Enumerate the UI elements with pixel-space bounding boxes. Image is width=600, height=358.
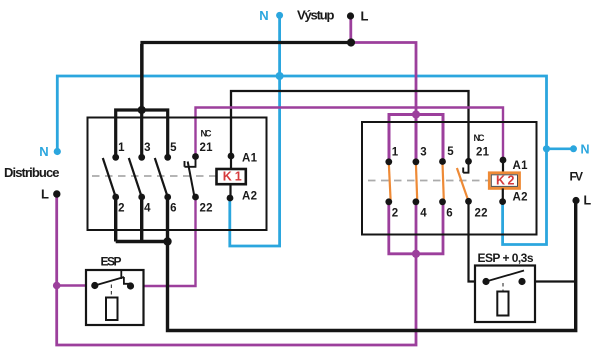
ESP right contact bbox=[127, 282, 134, 289]
svg-text:N: N bbox=[39, 144, 48, 159]
terminal K1-A2 bbox=[227, 195, 234, 202]
terminal K1-21 bbox=[192, 153, 199, 160]
wire L-top to K2 feed (purple) bbox=[351, 43, 416, 115]
terminal K2-6 bbox=[439, 198, 446, 205]
svg-text:6: 6 bbox=[170, 203, 176, 215]
svg-text:2: 2 bbox=[508, 174, 515, 188]
wire ESP junction to ESP left terminal bbox=[57, 284, 95, 286]
terminal K1-2 bbox=[112, 194, 119, 201]
svg-text:4: 4 bbox=[144, 203, 151, 215]
wire L-top stub (purple) bbox=[349, 16, 352, 43]
wire K1 A1 to coil bbox=[230, 156, 232, 169]
wire K2 1-3-5 feed bus (purple) bbox=[389, 115, 443, 162]
node K1 output junction bbox=[163, 237, 171, 245]
ESP contact lead bbox=[124, 277, 131, 284]
terminal K1-6 bbox=[164, 194, 171, 201]
terminal L Distribuce bbox=[53, 190, 60, 197]
terminal K2-1 bbox=[385, 158, 392, 165]
terminal K2-A2 bbox=[499, 198, 506, 205]
terminal K2-3 bbox=[413, 158, 420, 165]
ESP fixed tick bbox=[120, 271, 122, 279]
svg-text:2: 2 bbox=[118, 203, 124, 215]
terminal K1-1 bbox=[112, 154, 119, 161]
node K1 feed junction bbox=[138, 106, 146, 114]
wire K2 2-4-6 purple bus bbox=[389, 202, 443, 254]
terminal K2-21 bbox=[465, 158, 472, 165]
terminal K1-3 bbox=[138, 154, 145, 161]
node FV N junction bbox=[543, 145, 550, 152]
terminal K2-5 bbox=[439, 158, 446, 165]
contact blade K1 3-4 bbox=[129, 158, 142, 197]
NC contact K1 blade bbox=[188, 162, 195, 198]
svg-text:NC: NC bbox=[474, 133, 486, 143]
wire N-top riser down and over to K1 A2 (cyan) bbox=[230, 15, 280, 246]
cyan N bus across top with risers and K2 A2 return bbox=[57, 76, 546, 245]
contact K2 3-4 closed (orange) bbox=[416, 163, 417, 200]
svg-text:5: 5 bbox=[170, 142, 177, 154]
svg-text:ESP: ESP bbox=[101, 255, 122, 269]
svg-text:4: 4 bbox=[420, 208, 427, 220]
wire L-top to K1 feed (black) bbox=[142, 43, 351, 111]
terminal K2-A1 bbox=[500, 157, 507, 164]
contact K2 5-6 closed (orange) bbox=[443, 163, 444, 200]
NC contact K2 fixed stub bbox=[463, 162, 469, 173]
terminal K1-4 bbox=[138, 194, 145, 201]
terminal K1-A1 bbox=[228, 153, 235, 160]
terminal K1-22 bbox=[192, 194, 199, 201]
svg-text:22: 22 bbox=[200, 203, 213, 215]
ESP2 left contact bbox=[482, 278, 489, 285]
svg-text:21: 21 bbox=[476, 147, 490, 159]
ESP2 right contact bbox=[518, 278, 525, 285]
terminal K2-4 bbox=[413, 198, 420, 205]
svg-text:5: 5 bbox=[447, 146, 454, 158]
relay ESP+0,3s box bbox=[475, 266, 535, 323]
svg-text:Výstup: Výstup bbox=[297, 8, 335, 23]
contact K2 1-2 closed (orange) bbox=[389, 163, 391, 200]
wire K1 A1 to K2 NC21 (black) bbox=[231, 91, 469, 161]
wire K2 pin 22 down to ESP2 left terminal bbox=[469, 201, 487, 281]
svg-text:A2: A2 bbox=[242, 191, 257, 203]
ESP left contact bbox=[91, 282, 98, 289]
svg-text:1: 1 bbox=[118, 142, 125, 154]
svg-text:L: L bbox=[41, 187, 49, 202]
node K2 output junction bbox=[412, 250, 420, 258]
svg-text:A1: A1 bbox=[242, 153, 258, 165]
terminal FV N bbox=[570, 145, 577, 152]
terminal K2-2 bbox=[385, 198, 392, 205]
svg-text:ESP + 0,3s: ESP + 0,3s bbox=[478, 251, 534, 265]
dashed actuator line K1 bbox=[92, 175, 217, 177]
svg-text:1: 1 bbox=[235, 170, 242, 184]
NC contact K2 blade open (orange) bbox=[457, 168, 468, 201]
svg-text:2: 2 bbox=[392, 208, 398, 220]
contactor K1 box bbox=[88, 118, 267, 231]
svg-text:A2: A2 bbox=[513, 192, 528, 204]
svg-text:K: K bbox=[223, 170, 232, 184]
node K2 feed junction (purple) bbox=[412, 110, 420, 118]
node ESP left junction bbox=[53, 282, 61, 290]
node L-top junction bbox=[347, 38, 355, 46]
svg-text:3: 3 bbox=[420, 147, 426, 159]
terminal FV L bbox=[572, 197, 579, 204]
relay ESP box bbox=[86, 270, 144, 325]
coil K1 box bbox=[217, 169, 246, 184]
contact blade K1 1-2 bbox=[103, 158, 116, 197]
wire K2 coil to A2 bbox=[502, 188, 504, 201]
svg-text:FV: FV bbox=[570, 170, 584, 184]
svg-text:A1: A1 bbox=[513, 160, 529, 172]
ESP2 switch blade bbox=[486, 271, 524, 282]
node N bus junction bbox=[276, 72, 284, 80]
terminal L top bbox=[347, 12, 354, 19]
wire ESP2 right terminal to FV L riser bbox=[522, 280, 576, 282]
svg-text:K: K bbox=[496, 174, 505, 188]
wire L Distribuce riser + bottom purple bus up to K2 output bbox=[57, 194, 416, 345]
svg-text:6: 6 bbox=[446, 208, 452, 220]
svg-text:Distribuce: Distribuce bbox=[4, 165, 60, 180]
svg-text:N: N bbox=[259, 8, 268, 23]
terminal K1-5 bbox=[164, 154, 171, 161]
coil K2 box (orange) bbox=[489, 173, 519, 189]
svg-text:N: N bbox=[581, 143, 590, 157]
contact blade K1 5-6 bbox=[155, 158, 168, 197]
wire K1 1-3-5 feed bus (thick black) bbox=[116, 44, 168, 157]
terminal N top bbox=[276, 12, 283, 19]
ESP2 actuator dashed link bbox=[502, 283, 504, 291]
svg-text:L: L bbox=[361, 9, 369, 24]
ESP switch blade bbox=[95, 277, 124, 286]
ESP actuator dashed link bbox=[110, 285, 112, 298]
wire FV N stub bbox=[547, 148, 574, 151]
svg-text:3: 3 bbox=[144, 142, 150, 154]
svg-text:L: L bbox=[584, 194, 592, 208]
wire K1 coil to A2 bbox=[229, 184, 231, 198]
svg-text:NC: NC bbox=[201, 129, 213, 139]
wire ESP right terminal to K1 pin 22 (purple) bbox=[131, 197, 196, 286]
svg-text:1: 1 bbox=[392, 147, 399, 159]
NC contact K1 fixed stub bbox=[185, 157, 197, 167]
wire K2 A1 to coil bbox=[502, 160, 504, 173]
ESP coil bbox=[106, 298, 118, 321]
wire K1 2-4-6 bus down to bottom run and FV L (thick black) bbox=[116, 197, 576, 331]
svg-text:22: 22 bbox=[475, 208, 488, 220]
svg-text:21: 21 bbox=[200, 142, 214, 154]
contactor K2 box bbox=[362, 122, 537, 235]
wire K1 NC21 to K2 A1 (purple) bbox=[196, 108, 504, 161]
terminal N Distribuce bbox=[54, 148, 61, 155]
dashed actuator line K2 bbox=[368, 180, 489, 182]
ESP2 coil bbox=[497, 292, 508, 316]
terminal K2-22 bbox=[465, 198, 472, 205]
